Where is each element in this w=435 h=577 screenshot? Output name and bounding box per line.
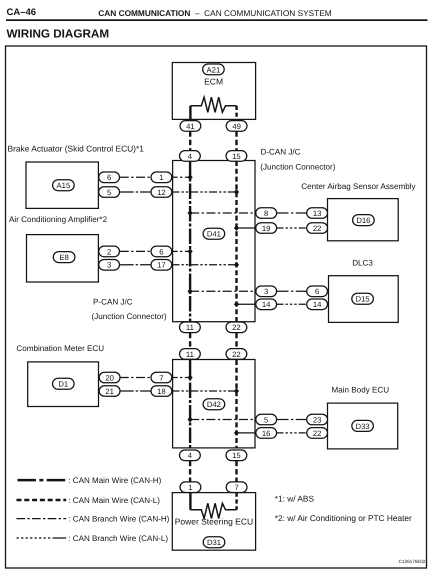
svg-text:(Junction Connector): (Junction Connector) [260,163,335,172]
legend sample CAN branch wire CAN-L [17,537,67,539]
wire CAN-H branch continuation at y419.5 [277,419,307,421]
wire CAN-H D42-4 to D31-1 [189,461,191,482]
svg-text:*2: w/ Air Conditioning or PTC: *2: w/ Air Conditioning or PTC Heater [275,513,412,523]
svg-text:D42: D42 [207,400,221,409]
pin oval 41 [180,121,201,132]
svg-text:15: 15 [232,152,241,161]
pin oval 16 right of D42 [256,428,277,439]
svg-text:22: 22 [313,429,322,438]
svg-text:D41: D41 [207,230,221,239]
svg-text:Combination Meter ECU: Combination Meter ECU [16,344,104,353]
svg-text:Main Body ECU: Main Body ECU [332,385,390,394]
svg-text:CA–46: CA–46 [7,7,37,18]
legend sample CAN branch wire CAN-H [17,518,67,520]
pin oval 18 left of D42 [151,386,172,397]
pin oval 15 top of D41 [226,151,247,162]
svg-text:D-CAN J/C: D-CAN J/C [261,148,301,157]
pin oval 22 bottom of D41 [226,322,247,333]
pin oval 14 left of D15 [307,299,328,310]
junction dot D41 node 8 [188,210,193,216]
svg-text:4: 4 [188,152,193,161]
Power Steering ECU box [172,493,255,551]
combination meter box (D1) [28,362,99,407]
svg-text:A21: A21 [207,65,221,74]
wire CAN-L branch oval14 to D15-14 [277,303,307,305]
pin oval 21 right of D1 [99,386,120,397]
pin oval 2 right of E8 [99,246,120,257]
svg-text:17: 17 [157,261,166,270]
wire CAN-H branch D41-3 to D15-6 [190,290,256,292]
svg-text:1: 1 [159,173,163,182]
connector oval E8 [53,252,75,263]
wire CAN-H stub D31 pin 1 [189,493,191,510]
svg-text:20: 20 [105,373,114,382]
connector oval D41 [203,228,225,239]
DLC3 box (D15) [329,276,399,323]
legend sample CAN main wire CAN-L [17,499,67,502]
junction dot D42 node 18 [234,388,239,394]
D-CAN J/C box (D41) [173,161,255,322]
pin oval 3 right of E8 [99,260,120,271]
svg-text:D31: D31 [207,538,221,547]
connector oval D33 [352,420,374,431]
pin oval 4 bottom of D42 [180,450,201,461]
wire CAN-H branch D41-8 to D16-13 [190,212,256,214]
junction dot D41 node 19 [234,225,239,231]
svg-text:14: 14 [262,300,271,309]
junction dot D42 node 16 [234,430,239,436]
pin oval 5 right of A15 [99,187,120,198]
connector oval D31 [203,537,225,548]
pin oval 7 top of D31 [226,482,247,493]
pin oval 6 left of D15 [307,286,328,297]
junction dot D41 node 17 [234,262,239,268]
svg-text:7: 7 [234,483,238,492]
junction dot D41 node 1 [188,174,193,180]
connector oval A15 [53,180,75,191]
header rule [6,19,428,21]
pin oval 12 left of D41 [151,187,172,198]
pin oval 11 top of D42 [180,349,201,360]
svg-text:D16: D16 [356,216,370,225]
svg-text:WIRING DIAGRAM: WIRING DIAGRAM [7,28,110,41]
junction dot D41 node 6 [188,248,193,254]
svg-text:D15: D15 [356,295,370,304]
wire CAN-H branch continuation at y213 [277,212,307,214]
brake actuator box (A15) [26,162,98,208]
pin oval 19 right of D41 [256,223,277,234]
pin oval 11 bottom of D41 [180,322,201,333]
wire CAN main (CAN-H) vertical in D41 [189,161,191,322]
svg-text:18: 18 [157,387,166,396]
connector oval D16 [353,215,375,226]
pin oval 15 bottom of D42 [226,450,247,461]
junction dot D42 node 5 [188,417,193,423]
svg-text:13: 13 [313,209,322,218]
svg-text:Center Airbag Sensor Assembly: Center Airbag Sensor Assembly [301,182,416,191]
pin oval 14 right of D41 [256,299,277,310]
wire CAN-L stub ECM pin 49 [235,106,237,120]
wire CAN-L D42-15 to D31-7 [235,461,237,482]
wire CAN-L branch oval16 to D33-22 [277,432,307,434]
connector oval A21 [203,64,225,75]
svg-text:E8: E8 [59,253,68,262]
svg-text:CAN COMMUNICATION – CAN COMM: CAN COMMUNICATION – CAN COMMUNICATION SY… [98,8,331,18]
wire CAN-H branch E8-2 to D41-6 [120,250,190,252]
wire CAN-L branch D41-17 to CAN-L main [172,264,237,266]
wire CAN-H stub ECM pin 41 [189,106,191,120]
wire CAN-L branch D41-14 to D15-14 [237,303,257,305]
wire CAN-H 41 to 4 [189,131,191,150]
resistor in Power Steering ECU (terminating resistor) [190,503,236,518]
svg-text:22: 22 [232,350,241,359]
svg-text:2: 2 [107,247,111,256]
junction dot D41 node 12 [234,189,239,195]
svg-text:C136176E02: C136176E02 [399,559,426,564]
svg-text:6: 6 [159,247,163,256]
pin oval 22 left of D16 [307,223,328,234]
svg-text:P-CAN J/C: P-CAN J/C [93,298,133,307]
svg-text:D33: D33 [356,422,370,431]
svg-text:: CAN Main Wire (CAN-L): : CAN Main Wire (CAN-L) [68,496,160,505]
pin oval 6 right of A15 [99,172,120,183]
svg-text:41: 41 [186,122,195,131]
svg-text:(Junction Connector): (Junction Connector) [92,312,167,321]
junction dot D42 node 7 [188,375,193,381]
air conditioning amplifier box (E8) [27,235,99,282]
svg-text:D1: D1 [58,380,68,389]
svg-text:ECM: ECM [204,77,223,87]
svg-text:4: 4 [188,451,193,460]
pin oval 20 right of D1 [99,372,120,383]
wire CAN-L stub D31 pin 7 [235,493,237,510]
wire CAN-L D41-22 to D42-22 [235,333,237,349]
svg-text:A15: A15 [57,181,71,190]
svg-text:7: 7 [159,373,163,382]
connector oval D15 [352,293,374,304]
pin oval 1 left of D41 [151,172,172,183]
svg-text:5: 5 [264,415,268,424]
pin oval 4 top of D41 [180,151,201,162]
wire CAN main (CAN-H) vertical in D42 [189,360,191,448]
pin oval 17 left of D41 [151,260,172,271]
pin oval 5 right of D42 [256,414,277,425]
wire CAN-H branch D1-20 to D42-7 [120,377,190,379]
pin oval 49 [226,121,247,132]
pin oval 13 left of D16 [307,208,328,219]
wire CAN-H branch continuation at y291.3 [277,290,307,292]
svg-text:DLC3: DLC3 [352,258,373,267]
connector oval D1 [53,378,75,389]
wire CAN-H branch D42-5 to D33-23 [190,419,256,421]
svg-text:14: 14 [313,300,322,309]
wire CAN main (CAN-L) vertical in D41 [235,161,237,322]
svg-text:6: 6 [315,287,319,296]
center airbag sensor box (D16) [328,199,399,241]
wire CAN-L branch oval19 to D16-22 [277,227,307,229]
svg-text:11: 11 [186,323,194,332]
svg-text:: CAN Branch Wire (CAN-L): : CAN Branch Wire (CAN-L) [68,534,168,543]
pin oval 1 top of D31 [180,482,201,493]
main body ECU box (D33) [328,403,398,449]
svg-text:*1: w/ ABS: *1: w/ ABS [275,493,315,503]
pin oval 8 right of D41 [256,208,277,219]
svg-text:15: 15 [232,451,241,460]
svg-text:22: 22 [232,323,241,332]
junction dot D41 node 14 [234,301,239,307]
pin oval 6 left of D41 [151,246,172,257]
connector oval D42 [203,399,225,410]
wire CAN-L branch D42-16 to D33-22 [237,432,257,434]
svg-text:8: 8 [264,209,268,218]
wire CAN-L 49 to 15 [235,131,237,150]
svg-text:3: 3 [264,287,268,296]
wire CAN-H branch A15-6 to D41-1 [120,176,190,178]
svg-text:23: 23 [313,415,322,424]
svg-text:: CAN Main Wire (CAN-H): : CAN Main Wire (CAN-H) [68,476,161,485]
wire CAN-L branch D41-12 to CAN-L main [172,191,237,193]
wire CAN-L branch D1-21 to D42-18 [120,390,152,392]
svg-text:49: 49 [232,122,241,131]
pin oval 22 top of D42 [226,349,247,360]
wire CAN-L branch E8-3 to D41-17 [120,264,152,266]
svg-text:: CAN Branch Wire (CAN-H): : CAN Branch Wire (CAN-H) [68,515,169,524]
pin oval 22 left of D33 [307,428,328,439]
svg-text:5: 5 [107,188,111,197]
junction dot D41 node 3 [188,288,193,294]
svg-text:11: 11 [186,350,194,359]
pin oval 7 left of D42 [151,372,172,383]
svg-text:16: 16 [262,429,271,438]
P-CAN J/C box (D42) [173,360,255,448]
svg-text:12: 12 [157,188,166,197]
svg-text:1: 1 [188,483,192,492]
svg-text:22: 22 [313,224,322,233]
wire CAN-L branch D42-18 to CAN-L main [172,390,237,392]
svg-text:Air Conditioning Amplifier*2: Air Conditioning Amplifier*2 [9,215,108,224]
wire CAN-L branch D41-19 to D16-22 [237,227,257,229]
svg-text:21: 21 [105,387,114,396]
ECM box [172,63,255,120]
svg-text:6: 6 [107,173,111,182]
svg-text:Brake Actuator (Skid Control E: Brake Actuator (Skid Control ECU)*1 [8,144,145,154]
svg-text:19: 19 [262,224,271,233]
wire CAN-L branch A15-5 to D41-12 [120,191,152,193]
wire CAN-H D41-11 to D42-11 [189,333,191,349]
pin oval 23 left of D33 [307,414,328,425]
svg-text:Power Steering ECU: Power Steering ECU [175,517,253,527]
svg-text:3: 3 [107,261,111,270]
resistor in ECM (terminating resistor) [190,97,236,112]
wire CAN main (CAN-L) vertical in D42 [235,360,237,448]
legend sample CAN main wire CAN-H [18,479,66,482]
pin oval 3 right of D41 [256,286,277,297]
